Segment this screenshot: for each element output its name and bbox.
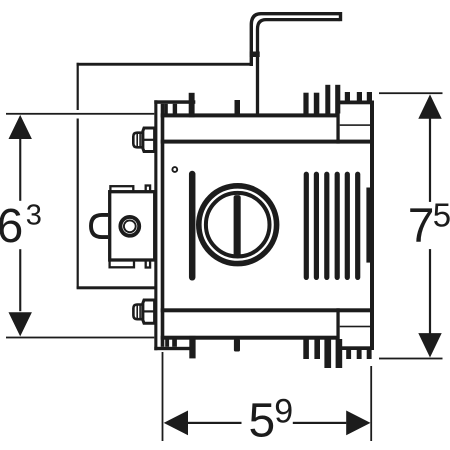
upper bolt nut xyxy=(143,128,155,152)
bracket block xyxy=(110,192,155,260)
bracket eyelet xyxy=(91,215,108,237)
plate line 2 xyxy=(161,104,165,347)
lower bolt nut xyxy=(143,300,155,323)
body bottom tooth small xyxy=(234,339,240,352)
body bottom tooth c2 xyxy=(314,339,320,359)
top-right block thin line xyxy=(340,124,370,126)
bottom dim arrow right xyxy=(346,411,370,436)
bracket bottom-right piece xyxy=(146,260,150,268)
left dim line lower xyxy=(19,249,21,311)
right dim arrow up xyxy=(418,94,441,118)
fin 3 xyxy=(324,174,329,277)
svg-text:3: 3 xyxy=(26,199,42,231)
right dim line lower xyxy=(429,249,431,334)
interior vertical bar xyxy=(189,174,196,277)
body inner top line xyxy=(161,140,372,144)
upper bolt thread xyxy=(133,133,142,148)
body right inner segment xyxy=(366,188,370,263)
pipe outer line xyxy=(251,14,341,66)
body top edge xyxy=(161,113,337,117)
svg-text:6: 6 xyxy=(0,200,23,253)
bottom-right block tooth 3 xyxy=(367,350,372,359)
bottom-right block bottom line xyxy=(337,346,374,350)
bottom dim line right xyxy=(293,422,347,424)
body top tooth c1 xyxy=(303,93,308,114)
right dim bottom extension line xyxy=(379,358,443,360)
body bottom tooth c1 xyxy=(303,339,309,359)
svg-text:9: 9 xyxy=(274,392,293,430)
plate bottom base xyxy=(154,347,195,350)
right dim top extension line xyxy=(379,92,443,94)
bottom dim left extension line xyxy=(162,352,164,441)
plate bottom tooth 1 xyxy=(165,339,169,347)
top-right block tooth 2 xyxy=(357,92,362,101)
fin 5 xyxy=(345,174,350,277)
plate top tooth 1 xyxy=(164,104,168,114)
right dim line upper xyxy=(429,119,431,202)
frame bottom edge xyxy=(77,286,155,289)
left dim arrow down xyxy=(9,312,32,336)
left dim top extension line xyxy=(6,113,154,115)
svg-text:7: 7 xyxy=(408,200,435,253)
left dim line upper xyxy=(19,138,21,201)
body bottom tooth c3 tall xyxy=(324,339,331,368)
frame left edge lower xyxy=(77,119,79,289)
lower bolt thread xyxy=(133,305,142,320)
body bottom tooth c4 tall xyxy=(336,339,343,368)
body top tooth c3 tall xyxy=(325,85,330,114)
fin 4 xyxy=(335,174,340,277)
heatsink fins xyxy=(306,174,357,277)
fin 6 xyxy=(355,174,360,277)
knob outer circle xyxy=(199,186,277,264)
fin 2 xyxy=(314,174,319,277)
bracket ring outer xyxy=(120,217,139,236)
svg-text:5: 5 xyxy=(433,196,450,233)
bracket top-right piece xyxy=(146,186,150,194)
knob slot xyxy=(234,195,241,258)
body inner bottom line xyxy=(161,308,372,312)
plate bottom tooth 2 xyxy=(172,339,177,347)
body top tooth c2 xyxy=(314,93,320,114)
bottom dim arrow left xyxy=(164,411,188,436)
small hole xyxy=(172,167,177,172)
right dim arrow down xyxy=(418,333,441,357)
body bottom edge xyxy=(161,336,337,340)
bottom-right block left edge xyxy=(336,308,339,350)
plate top post xyxy=(189,93,195,118)
plate top base xyxy=(154,100,195,104)
pipe end cap xyxy=(339,12,342,21)
fin 1 xyxy=(304,174,309,277)
left dim arrow up xyxy=(9,115,32,139)
body top tooth c4 tall xyxy=(335,85,340,114)
bottom-right block thin line xyxy=(340,326,370,328)
body top tooth small xyxy=(235,100,241,114)
bottom dim right extension line xyxy=(370,366,372,441)
frame left edge upper xyxy=(77,63,79,110)
top-right block tooth 3 xyxy=(367,92,372,101)
bracket top tab xyxy=(110,186,133,193)
bracket ring inner xyxy=(124,220,136,232)
knob inner circle xyxy=(206,193,270,257)
plate top tooth 2 xyxy=(173,104,177,114)
top-right block top line xyxy=(337,101,374,105)
bracket bottom tab xyxy=(110,260,134,267)
body right edge xyxy=(370,101,374,351)
svg-text:5: 5 xyxy=(249,395,276,448)
pipe joint tick xyxy=(250,52,260,58)
left dim bottom extension line xyxy=(6,337,154,339)
frame top edge xyxy=(77,63,253,66)
plate line 1 xyxy=(154,100,157,350)
plate bottom post xyxy=(189,336,195,359)
pipe inner line xyxy=(258,20,340,116)
bottom-right block tooth 2 xyxy=(357,350,362,359)
bottom dim line left xyxy=(188,422,242,424)
top-right block left edge xyxy=(336,101,339,144)
bottom-right block tooth 1 xyxy=(346,350,351,359)
top-right block tooth 1 xyxy=(345,92,350,101)
